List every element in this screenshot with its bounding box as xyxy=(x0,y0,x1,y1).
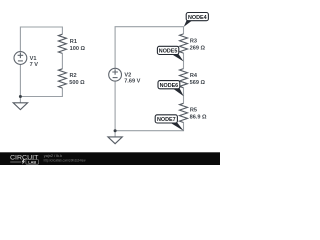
svg-text:NODE7: NODE7 xyxy=(157,117,176,123)
svg-text:569 Ω: 569 Ω xyxy=(190,80,206,86)
svg-text:7 V: 7 V xyxy=(30,62,39,68)
svg-text:R2: R2 xyxy=(70,73,77,79)
svg-text:269 Ω: 269 Ω xyxy=(190,46,206,52)
svg-text:R4: R4 xyxy=(190,73,198,79)
svg-text:R5: R5 xyxy=(190,108,197,114)
svg-text:R1: R1 xyxy=(70,39,77,45)
svg-text:V2: V2 xyxy=(124,72,131,78)
svg-text:7.69 V: 7.69 V xyxy=(124,79,140,85)
svg-text:100 Ω: 100 Ω xyxy=(70,46,86,52)
svg-text:500 Ω: 500 Ω xyxy=(69,80,85,86)
svg-text:http://circuitlab.com/c/9fx2s2: http://circuitlab.com/c/9fx2s24rew xyxy=(44,158,86,162)
svg-text:NODE5: NODE5 xyxy=(159,49,178,55)
svg-text:LAB: LAB xyxy=(28,160,36,164)
svg-text:R3: R3 xyxy=(190,39,197,45)
svg-text:86.9 Ω: 86.9 Ω xyxy=(190,115,207,121)
svg-text:NODE6: NODE6 xyxy=(160,83,179,89)
svg-text:NODE4: NODE4 xyxy=(188,15,207,21)
